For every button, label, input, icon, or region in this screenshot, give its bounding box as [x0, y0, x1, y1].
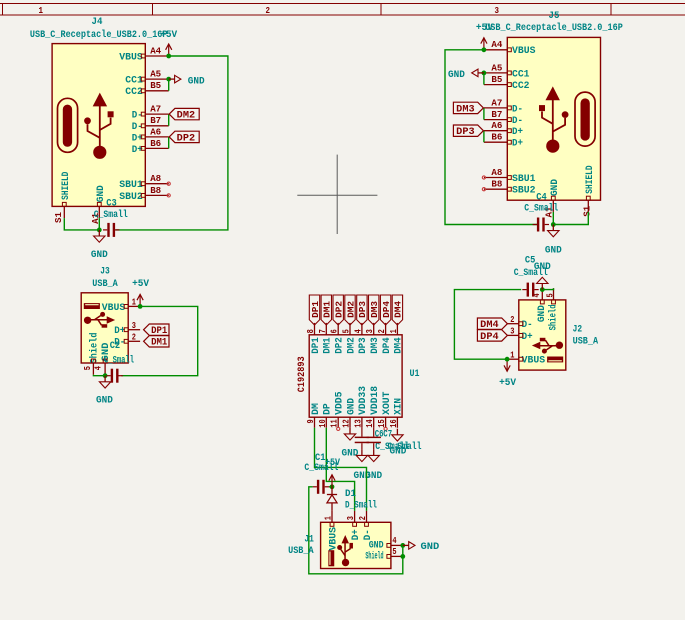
svg-text:CC2: CC2: [512, 80, 530, 92]
J5 pin B7 (D-): [484, 109, 523, 127]
U1 pin 7 (DM1): [317, 323, 334, 354]
capacitor C7: [367, 428, 422, 453]
power GND below C7: [365, 449, 382, 482]
svg-text:VBUS: VBUS: [512, 45, 536, 57]
svg-text:16: 16: [388, 419, 399, 428]
power +5V at J5 VBUS: [476, 23, 493, 50]
svg-text:A4: A4: [150, 45, 161, 56]
wire J3 shield to gnd: [93, 375, 105, 376]
svg-text:C6: C6: [375, 430, 384, 441]
power +5V at J2 VBUS: [499, 359, 516, 389]
svg-text:DM2: DM2: [177, 111, 195, 122]
J4 pin S1 (SHIELD): [53, 202, 66, 223]
svg-text:13: 13: [352, 419, 363, 428]
sheet border top rule: [0, 3, 685, 5]
svg-text:C_Small: C_Small: [94, 209, 128, 221]
svg-text:GND: GND: [534, 262, 551, 273]
U1 pin 15 (XOUT): [376, 392, 393, 428]
capacitor C1: [304, 453, 338, 494]
global label DM3: [453, 102, 483, 113]
power GND below J5: [545, 225, 562, 257]
global label DP1: [144, 324, 169, 335]
svg-text:B7: B7: [491, 109, 502, 120]
global label DP4 at U1: [380, 295, 390, 325]
no-connect end J5 SBU1: [482, 176, 485, 179]
svg-text:J2: J2: [573, 325, 583, 336]
wire J4 S1 down: [64, 218, 99, 230]
svg-text:C2: C2: [110, 341, 121, 352]
svg-text:VDD5: VDD5: [335, 392, 346, 415]
svg-text:5: 5: [392, 546, 396, 557]
svg-text:4: 4: [93, 366, 104, 370]
svg-text:+5V: +5V: [325, 458, 340, 469]
svg-text:B6: B6: [150, 138, 161, 149]
junction at J5 GND net: [551, 222, 556, 227]
J5 pin B8 (SBU2): [484, 179, 536, 197]
wire U1 DM to J1 D-: [315, 428, 367, 511]
svg-text:VBUS: VBUS: [328, 527, 340, 551]
U1 pin 6 (DP2): [329, 323, 346, 354]
svg-text:+5V: +5V: [132, 279, 149, 290]
global label DP2 at U1: [333, 295, 343, 325]
wire J2 VBUS to left rail: [454, 290, 521, 360]
svg-text:CC1: CC1: [512, 68, 530, 80]
power +5V at J4 VBUS: [160, 30, 177, 56]
diode D1 D_Small: [327, 487, 377, 512]
svg-text:USB_A: USB_A: [573, 337, 599, 348]
svg-text:B6: B6: [491, 132, 502, 143]
global label DM4 at U1: [392, 295, 402, 325]
svg-text:3: 3: [132, 320, 136, 331]
svg-text:Shield: Shield: [547, 304, 559, 330]
capacitor C6: [355, 428, 410, 453]
svg-text:C_Small: C_Small: [388, 441, 422, 453]
global label DM2 at U1: [345, 295, 355, 325]
svg-text:1: 1: [39, 6, 44, 16]
svg-text:CC1: CC1: [125, 75, 143, 87]
U1 pin 5 (DM2): [341, 323, 358, 354]
power GND at U1 pin 16: [390, 429, 407, 458]
connector J2 USB_A: [519, 300, 566, 370]
junction at J4 VBUS pin: [166, 54, 171, 59]
editor crosshair cursor: [297, 194, 377, 196]
svg-text:9: 9: [305, 419, 316, 423]
U1 pin 14 (VDD18): [364, 386, 381, 428]
svg-text:J4: J4: [92, 17, 103, 28]
power GND at J1: [403, 542, 440, 553]
power GND above J2: [534, 262, 551, 290]
connector J3 USB_A: [81, 293, 128, 363]
power GND at U1 pin 12: [342, 428, 359, 460]
J5 pin A8 (SBU1): [484, 167, 536, 185]
svg-text:C3: C3: [106, 199, 117, 210]
wire J2 shield to gnd: [542, 288, 553, 289]
wire J4 A1 down: [98, 218, 100, 230]
svg-text:12: 12: [341, 419, 352, 428]
J5 pin A4 (VBUS): [484, 39, 536, 57]
svg-text:A6: A6: [491, 120, 502, 131]
J5 pin B6 (D+): [484, 132, 523, 150]
svg-text:C_Small: C_Small: [104, 354, 134, 366]
U1 pin 4 (DP3): [352, 323, 369, 354]
junction at J3 GND net: [103, 373, 108, 378]
svg-text:+5V: +5V: [499, 378, 516, 389]
J4 pin B5 (CC2): [125, 80, 168, 98]
no-connect end J4 SBU2: [167, 194, 170, 197]
J1 pin 3 (D+): [345, 511, 357, 526]
wire J5 B6 up to A6: [483, 131, 485, 143]
junction at J2 GND net: [540, 287, 545, 292]
J1 pin 4 (GND): [387, 535, 402, 548]
svg-text:DP1: DP1: [310, 301, 321, 318]
U1 pin 1 (DM4): [388, 323, 405, 354]
svg-text:SHIELD: SHIELD: [60, 172, 72, 200]
svg-text:DM: DM: [311, 403, 322, 415]
svg-text:DP3: DP3: [358, 337, 369, 354]
svg-text:VDD33: VDD33: [358, 386, 369, 415]
U1 pin 13 (VDD33): [352, 386, 369, 428]
power +5V above D1: [325, 458, 340, 487]
svg-text:GND: GND: [536, 305, 548, 322]
svg-text:5: 5: [82, 366, 93, 370]
svg-text:5: 5: [545, 293, 556, 297]
wire J4 CC2 up to CC1: [168, 79, 170, 91]
J4 pin A1 (GND): [90, 202, 101, 224]
global label DM1 at U1: [321, 295, 331, 325]
svg-text:DM4: DM4: [394, 337, 405, 354]
svg-text:B7: B7: [150, 115, 161, 126]
svg-text:D+: D+: [114, 325, 125, 337]
svg-text:B8: B8: [150, 185, 161, 196]
svg-text:CC2: CC2: [125, 86, 143, 98]
svg-text:DM1: DM1: [323, 337, 334, 354]
svg-text:11: 11: [329, 419, 340, 428]
svg-text:D+: D+: [512, 126, 523, 138]
svg-text:GND: GND: [346, 398, 357, 415]
junction at +5V node: [330, 484, 335, 489]
J2 pin 4 (GND): [531, 288, 544, 304]
wire U1 DP to J1 D+: [326, 428, 354, 511]
svg-text:GND: GND: [545, 245, 562, 256]
svg-text:14: 14: [364, 419, 375, 428]
svg-text:8: 8: [305, 329, 316, 333]
svg-text:SBU2: SBU2: [512, 185, 536, 197]
power GND below J3: [96, 376, 113, 407]
svg-text:C4: C4: [536, 192, 547, 203]
no-connect end U1 pin 15: [384, 427, 387, 430]
svg-text:2: 2: [376, 329, 387, 333]
svg-text:1: 1: [388, 329, 399, 333]
wire J5 CC2 up to CC1: [483, 73, 485, 85]
connector J4 USB_C_Receptacle_USB2.0_16P: [52, 44, 145, 207]
svg-text:4: 4: [352, 329, 363, 333]
svg-text:GND: GND: [549, 179, 561, 196]
J5 pin A7 (D-): [484, 97, 523, 115]
no-connect end J4 SBU1: [167, 182, 170, 185]
svg-text:D+: D+: [512, 138, 523, 150]
svg-text:S1: S1: [53, 212, 64, 223]
svg-text:2: 2: [266, 6, 271, 16]
svg-text:3: 3: [495, 6, 500, 16]
J5 pin A1 (GND): [544, 196, 556, 217]
svg-text:+5V: +5V: [476, 23, 493, 34]
U1 pin 9 (DM): [305, 403, 322, 428]
U1 pin 10 (DP): [317, 403, 334, 428]
svg-text:10: 10: [317, 419, 328, 428]
svg-text:15: 15: [376, 419, 387, 428]
svg-text:J3: J3: [100, 266, 110, 277]
svg-text:VBUS: VBUS: [119, 51, 143, 63]
svg-text:B5: B5: [150, 80, 161, 91]
IC U1 C192893: [309, 335, 402, 417]
svg-text:6: 6: [329, 329, 340, 333]
J2 pin 1 (VBUS): [507, 349, 545, 366]
capacitor C5: [514, 256, 548, 297]
J4 pin A7 (D-): [132, 104, 169, 122]
power GND at J5 CC1: [448, 69, 484, 81]
capacitor C3: [94, 199, 128, 237]
svg-text:GND: GND: [188, 76, 205, 87]
svg-text:DM2: DM2: [345, 301, 356, 318]
svg-text:DM4: DM4: [393, 301, 404, 318]
svg-text:1: 1: [322, 516, 333, 520]
svg-text:GND: GND: [365, 471, 382, 482]
J1 pin 2 (D-): [357, 511, 369, 526]
J3 pin 3 (D+): [114, 320, 140, 337]
global label DM2: [169, 108, 199, 119]
svg-text:A4: A4: [491, 39, 502, 50]
U1 pin 16 (XIN): [388, 398, 405, 428]
svg-text:USB_A: USB_A: [92, 279, 118, 290]
svg-text:B5: B5: [491, 74, 502, 85]
junction at J1 Shield pin: [400, 554, 405, 559]
wire J4 B7 up to A7: [168, 114, 170, 126]
wire J4 VBUS to right rail: [115, 56, 228, 230]
J4 pin B7 (D-): [132, 115, 169, 133]
J4 pin A5 (CC1): [125, 69, 168, 87]
svg-text:GND: GND: [96, 396, 113, 407]
svg-text:SBU1: SBU1: [119, 179, 143, 191]
svg-text:SHIELD: SHIELD: [584, 165, 596, 193]
wire J3 VBUS to right rail: [121, 306, 197, 375]
svg-text:U1: U1: [410, 369, 420, 380]
svg-text:DM3: DM3: [456, 104, 474, 115]
svg-text:GND: GND: [342, 448, 359, 459]
junction at J1 GND pin: [400, 543, 405, 548]
global label DP3 at U1: [357, 295, 367, 325]
svg-text:DM1: DM1: [322, 301, 333, 318]
svg-text:1: 1: [132, 297, 136, 308]
J1 pin 5 (Shield): [387, 546, 402, 559]
no-connect end U1 pin 11: [337, 427, 340, 430]
svg-text:GND: GND: [448, 70, 465, 81]
svg-text:3: 3: [510, 326, 514, 337]
svg-text:DM2: DM2: [346, 337, 357, 354]
global label DM1: [144, 336, 169, 347]
J5 pin B5 (CC2): [484, 74, 530, 92]
junction at J2 VBUS pin: [505, 357, 510, 362]
junction at J5 VBUS pin: [482, 47, 487, 52]
svg-text:DM3: DM3: [369, 301, 380, 318]
J3 pin 5 (Shield): [82, 359, 95, 375]
svg-text:1: 1: [510, 349, 514, 360]
svg-text:DP4: DP4: [382, 337, 393, 354]
connector J5 USB_C_Receptacle_USB2.0_16P: [507, 37, 600, 200]
wire C1 right to +5V node: [329, 486, 332, 488]
svg-text:VBUS: VBUS: [522, 355, 546, 367]
svg-text:DP3: DP3: [357, 301, 368, 318]
no-connect end J5 SBU2: [482, 188, 485, 191]
power GND at J4 CC1: [169, 75, 205, 87]
svg-text:A7: A7: [491, 97, 502, 108]
svg-text:2: 2: [357, 516, 368, 520]
wire J4 B6 up to A6: [168, 137, 170, 149]
global label DM3 at U1: [369, 295, 379, 325]
svg-text:C_Small: C_Small: [524, 203, 558, 215]
svg-text:XOUT: XOUT: [382, 392, 393, 415]
junction at J4 GND net: [97, 228, 102, 233]
svg-text:VBUS: VBUS: [102, 302, 126, 314]
junction at J5 CC1 pin: [482, 71, 487, 76]
svg-text:SBU2: SBU2: [119, 191, 143, 203]
U1 pin 11 (VDD5): [329, 392, 346, 428]
J3 pin 4 (GND): [93, 359, 107, 375]
svg-text:USB_C_Receptacle_USB2.0_16P: USB_C_Receptacle_USB2.0_16P: [485, 22, 623, 34]
capacitor C2: [104, 341, 134, 383]
svg-text:D1: D1: [345, 489, 356, 500]
wire C1 left to gnd rail: [309, 487, 403, 574]
svg-text:DM3: DM3: [370, 337, 381, 354]
U1 pin 8 (DP1): [305, 323, 322, 354]
power +5V at J3 VBUS: [132, 279, 149, 306]
svg-text:3: 3: [364, 329, 375, 333]
junction at J4 CC1 pin: [166, 77, 171, 82]
svg-text:7: 7: [317, 329, 328, 333]
svg-text:A7: A7: [150, 104, 161, 115]
svg-text:DP2: DP2: [177, 133, 195, 144]
J2 pin 3 (D+): [507, 326, 532, 343]
svg-text:VDD18: VDD18: [370, 386, 381, 415]
wire J5 A1 down: [552, 212, 554, 225]
svg-text:S1: S1: [581, 206, 592, 217]
svg-text:A5: A5: [491, 62, 502, 73]
J4 pin A6 (D+): [132, 126, 169, 144]
global label DP2: [169, 131, 199, 142]
J3 pin 2 (D-): [114, 332, 140, 349]
wire J5 B7 up to A7: [483, 108, 485, 120]
svg-text:DP4: DP4: [381, 301, 392, 318]
svg-text:SBU1: SBU1: [512, 173, 536, 185]
svg-text:+5V: +5V: [160, 30, 177, 41]
global label DP1 at U1: [309, 295, 319, 325]
svg-text:DP: DP: [323, 403, 334, 415]
svg-text:A6: A6: [150, 126, 161, 137]
svg-text:XIN: XIN: [394, 398, 405, 415]
global label DP4: [477, 330, 507, 341]
junction at J3 VBUS pin: [138, 304, 143, 309]
global label DM4: [477, 318, 507, 329]
global label DP3: [453, 125, 483, 136]
J3 pin 1 (VBUS): [102, 297, 140, 314]
J4 pin A8 (SBU1): [119, 173, 168, 191]
svg-text:J5: J5: [549, 11, 560, 22]
wire J5 VBUS to left rail: [445, 50, 537, 225]
svg-text:C192893: C192893: [297, 356, 308, 392]
svg-text:D-: D-: [512, 103, 523, 115]
svg-text:2: 2: [132, 332, 136, 343]
J5 pin S1 (SHIELD): [581, 196, 592, 217]
J4 pin B8 (SBU2): [119, 185, 168, 203]
J5 pin A6 (D+): [484, 120, 523, 138]
svg-text:D_Small: D_Small: [345, 500, 377, 512]
svg-text:GND: GND: [91, 250, 108, 261]
J4 pin B6 (D+): [132, 138, 169, 156]
svg-text:J1: J1: [304, 535, 314, 546]
svg-text:DP3: DP3: [456, 127, 474, 138]
svg-text:A8: A8: [150, 173, 161, 184]
svg-text:A8: A8: [491, 167, 502, 178]
svg-text:Shield: Shield: [365, 551, 383, 563]
svg-text:A5: A5: [150, 69, 161, 80]
svg-text:GND: GND: [421, 542, 440, 553]
capacitor C4: [524, 192, 558, 231]
svg-text:2: 2: [510, 314, 514, 325]
svg-text:4: 4: [392, 535, 396, 546]
wire J5 S1 down: [553, 212, 588, 225]
U1 pin 2 (DP4): [376, 323, 393, 354]
svg-text:DP2: DP2: [334, 301, 345, 318]
svg-text:C7: C7: [383, 430, 392, 441]
svg-text:B8: B8: [491, 179, 502, 190]
connector J1 USB_A: [321, 522, 391, 568]
svg-text:D+: D+: [350, 529, 362, 540]
J2 pin 5 (Shield): [545, 288, 556, 304]
svg-text:3: 3: [345, 516, 356, 520]
U1 pin 12 (GND): [341, 398, 358, 428]
power GND below J4: [91, 230, 108, 261]
U1 pin 3 (DM3): [364, 323, 381, 354]
J5 pin A5 (CC1): [484, 62, 530, 80]
svg-text:DP1: DP1: [311, 337, 322, 354]
svg-text:DP2: DP2: [335, 337, 346, 354]
J4 pin A4 (VBUS): [119, 45, 168, 63]
J1 pin 1 (VBUS): [322, 511, 334, 526]
svg-text:DM1: DM1: [151, 338, 167, 349]
J2 pin 2 (D-): [507, 314, 532, 331]
svg-text:USB_A: USB_A: [288, 546, 314, 557]
svg-text:DP4: DP4: [480, 332, 498, 343]
svg-text:5: 5: [341, 329, 352, 333]
power GND below C6: [353, 449, 370, 482]
svg-text:USB_C_Receptacle_USB2.0_16P: USB_C_Receptacle_USB2.0_16P: [30, 29, 168, 41]
